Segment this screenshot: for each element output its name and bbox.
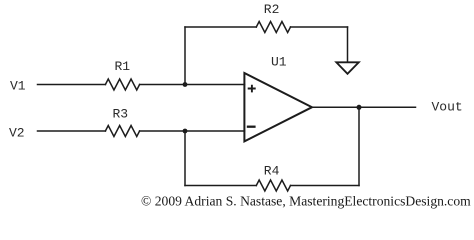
svg-text:U1: U1 <box>271 55 287 70</box>
svg-text:R1: R1 <box>115 59 131 74</box>
svg-text:V2: V2 <box>9 125 25 140</box>
svg-text:R4: R4 <box>264 163 280 178</box>
svg-text:Vout: Vout <box>432 100 463 115</box>
svg-text:R2: R2 <box>264 2 280 17</box>
svg-text:© 2009 Adrian S. Nastase, Mast: © 2009 Adrian S. Nastase, MasteringElect… <box>141 194 471 209</box>
svg-text:R3: R3 <box>113 107 129 122</box>
svg-text:V1: V1 <box>10 79 26 94</box>
